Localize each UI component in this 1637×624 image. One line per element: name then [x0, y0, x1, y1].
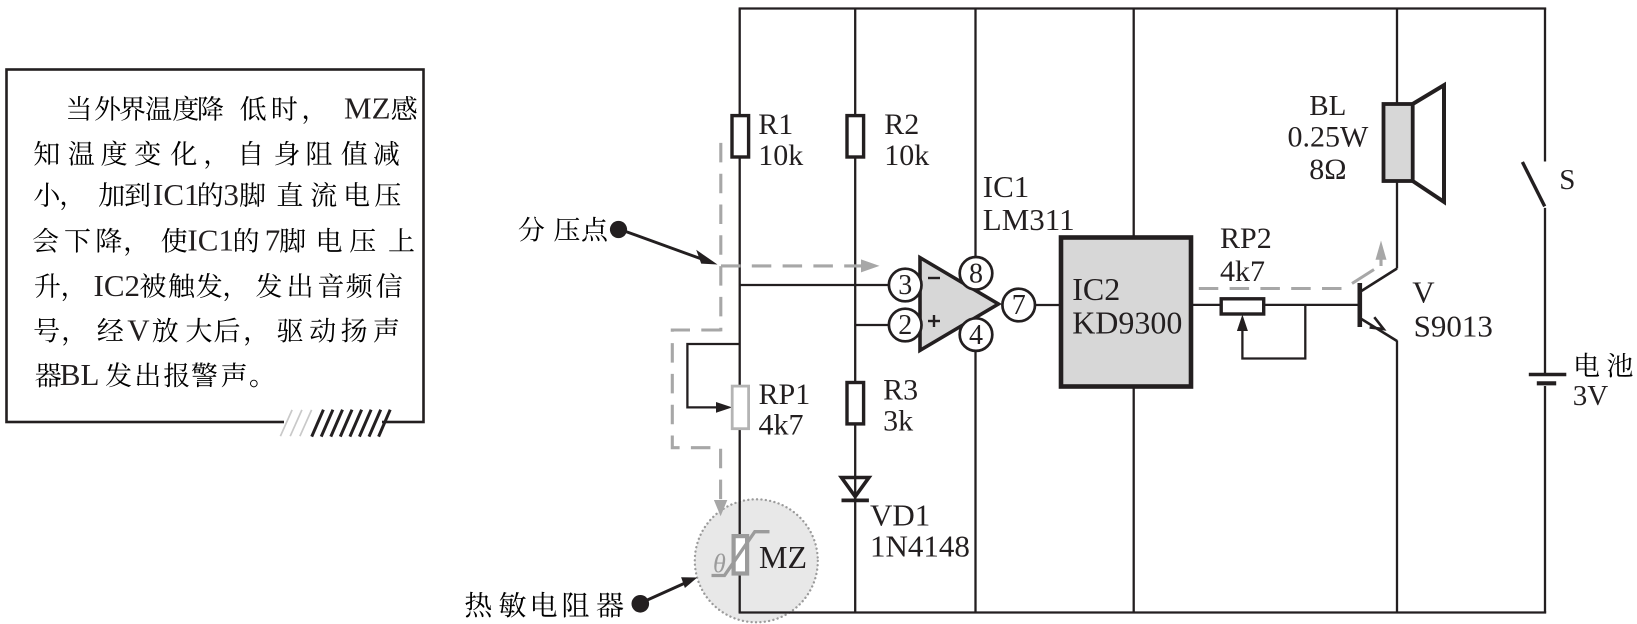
svg-text:IC1: IC1: [983, 169, 1030, 204]
svg-text:IC1: IC1: [153, 177, 200, 212]
svg-text:IC2: IC2: [1072, 271, 1120, 307]
svg-text:MZ: MZ: [759, 539, 807, 575]
svg-text:RP2: RP2: [1220, 222, 1272, 255]
svg-text:4k7: 4k7: [759, 408, 804, 441]
svg-text:IC1: IC1: [187, 223, 234, 258]
svg-text:θ: θ: [713, 549, 726, 578]
svg-text:BL: BL: [1309, 90, 1346, 122]
svg-text:R1: R1: [758, 108, 793, 141]
svg-text:V: V: [1412, 275, 1435, 310]
svg-text:4k7: 4k7: [1220, 255, 1265, 288]
svg-text:3k: 3k: [883, 405, 913, 438]
svg-text:LM311: LM311: [983, 202, 1075, 237]
svg-text:1N4148: 1N4148: [870, 529, 970, 564]
svg-text:8Ω: 8Ω: [1309, 153, 1346, 186]
svg-text:S9013: S9013: [1414, 309, 1493, 344]
svg-text:KD9300: KD9300: [1072, 305, 1182, 341]
svg-text:10k: 10k: [884, 139, 929, 172]
svg-text:4: 4: [969, 320, 983, 351]
svg-text:BL: BL: [60, 357, 100, 392]
svg-text:0.25W: 0.25W: [1288, 120, 1370, 153]
svg-text:10k: 10k: [758, 139, 803, 172]
svg-text:S: S: [1559, 164, 1575, 196]
svg-text:7: 7: [265, 223, 281, 258]
svg-text:2: 2: [898, 310, 912, 341]
svg-text:MZ: MZ: [344, 91, 391, 126]
svg-text:R3: R3: [883, 374, 918, 407]
svg-text:8: 8: [969, 259, 983, 290]
svg-text:V: V: [127, 312, 150, 347]
svg-text:3: 3: [898, 270, 912, 301]
svg-text:3: 3: [223, 177, 239, 212]
svg-text:7: 7: [1012, 290, 1026, 321]
svg-text:3V: 3V: [1573, 380, 1609, 412]
svg-text:VD1: VD1: [870, 497, 930, 532]
svg-text:IC2: IC2: [94, 268, 141, 303]
svg-text:RP1: RP1: [759, 378, 811, 411]
svg-text:R2: R2: [884, 108, 919, 141]
